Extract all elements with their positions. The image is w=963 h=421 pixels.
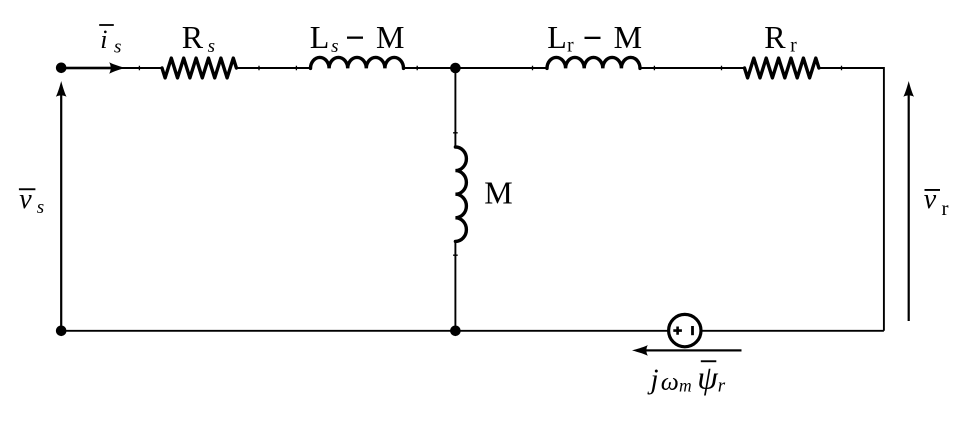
svg-text:s: s: [208, 36, 215, 57]
svg-text:v: v: [924, 184, 937, 215]
svg-text:r: r: [718, 376, 726, 397]
wire bottom left segment (source to node): [61, 330, 668, 332]
node bottom-middle junction: [450, 326, 461, 337]
svg-text:M: M: [376, 19, 404, 55]
wire top segment between R_s and L_s-M: [236, 67, 310, 69]
svg-text:r: r: [567, 36, 574, 57]
wire top segment between L_s-M and node: [404, 67, 548, 69]
terminal tick marks on middle wire: [453, 133, 458, 255]
wire middle vertical lower (M coil to node): [454, 242, 456, 331]
svg-text:R: R: [182, 19, 204, 55]
node top-left: [56, 63, 67, 74]
node bottom-left: [56, 326, 67, 337]
svg-text:r: r: [942, 196, 949, 220]
current arrow i_s shaft: [63, 67, 111, 70]
voltage arrow v_r shaft: [908, 95, 910, 321]
plus sign inside source: [673, 327, 682, 335]
inductor L_r-M: [547, 57, 640, 68]
label i_s overbar: [99, 24, 114, 26]
inductor L_s-M: [311, 57, 404, 68]
wire bottom right segment (corner to source): [701, 330, 884, 332]
flux arrow j*omega*psi head (points left): [632, 345, 648, 356]
svg-text:m: m: [679, 376, 692, 396]
inductor M (vertical): [455, 147, 466, 241]
label v_r overbar: [925, 189, 941, 191]
svg-text:L: L: [310, 19, 330, 55]
voltage source circle: [669, 314, 701, 346]
wire top-left segment (node to resistor R_s): [61, 67, 162, 69]
voltage arrow v_s shaft: [60, 95, 62, 331]
svg-text:v: v: [19, 184, 32, 215]
flux arrow j*omega*psi shaft: [646, 349, 742, 351]
label v_s overbar: [19, 188, 36, 190]
wire middle vertical upper (node to M coil): [454, 68, 456, 147]
svg-text:s: s: [37, 197, 44, 218]
svg-text:i: i: [100, 25, 107, 54]
svg-text:ψ: ψ: [697, 360, 718, 396]
wire top segment between L_r-M and R_r: [640, 67, 745, 69]
svg-text:L: L: [547, 19, 567, 55]
svg-text:M: M: [484, 175, 512, 211]
svg-text:s: s: [331, 36, 338, 57]
resistor R_s: [162, 58, 236, 78]
current arrow i_s head: [109, 62, 125, 73]
voltage arrow v_r head: [903, 81, 914, 97]
svg-text:ω: ω: [661, 367, 679, 396]
svg-text:s: s: [114, 36, 121, 57]
label j omega_m psi_r overbar: [701, 360, 717, 362]
voltage arrow v_s head: [56, 81, 67, 97]
svg-text:M: M: [614, 19, 642, 55]
minus sign (vertical bar) inside source: [691, 326, 694, 335]
terminal tick marks on top wire: [139, 66, 841, 71]
resistor R_r: [745, 58, 819, 78]
node top-middle junction: [450, 63, 461, 74]
svg-text:r: r: [790, 36, 797, 57]
svg-text:R: R: [764, 19, 786, 55]
wire top-right segment and right vertical (R_r to corner to bottom): [819, 68, 884, 331]
